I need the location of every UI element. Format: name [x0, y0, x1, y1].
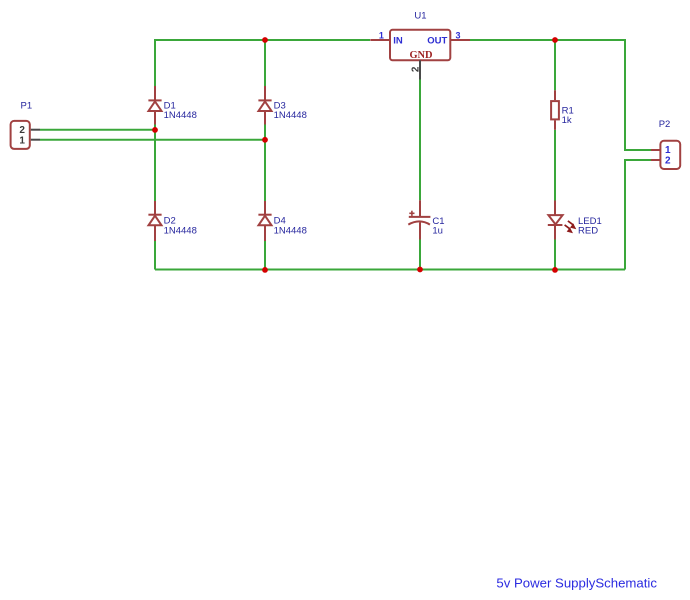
- wire LED1 to bottom bus: [554, 240, 556, 270]
- diode D1: [148, 86, 161, 125]
- regulator U1: [370, 30, 470, 80]
- svg-text:RED: RED: [578, 225, 598, 236]
- LED LED1: [548, 201, 563, 240]
- resistor R1: [551, 90, 559, 130]
- wire R1 to LED1: [554, 130, 556, 201]
- wire top bus to R1: [554, 40, 556, 90]
- svg-text:1k: 1k: [562, 115, 572, 126]
- wire D3 top: [264, 40, 266, 86]
- wire top bus right: [470, 40, 651, 150]
- wire D3 to D4: [264, 125, 266, 202]
- diode D2: [148, 201, 161, 241]
- svg-text:1N4448: 1N4448: [274, 226, 307, 237]
- wire C1 to bottom bus: [419, 240, 421, 270]
- capacitor C1: [408, 200, 430, 239]
- wire P1 pin1 to node B: [40, 139, 265, 141]
- wire P2 pin2 riser: [625, 160, 651, 270]
- node C junction P1pin2-D1D2: [152, 127, 158, 133]
- wire D4 to bottom bus: [264, 241, 266, 270]
- svg-text:3: 3: [456, 31, 461, 41]
- wire P1 pin2 to node A: [40, 129, 155, 131]
- svg-text:OUT: OUT: [427, 36, 447, 47]
- svg-text:1: 1: [379, 31, 384, 41]
- node G junction bottom-LED1: [552, 267, 558, 273]
- svg-text:1N4448: 1N4448: [164, 226, 197, 237]
- node B junction top-R1: [552, 37, 558, 43]
- svg-text:U1: U1: [414, 10, 426, 21]
- node A junction top-D3: [262, 37, 268, 43]
- svg-text:1N4448: 1N4448: [164, 110, 197, 121]
- svg-text:1N4448: 1N4448: [274, 110, 307, 121]
- svg-text:IN: IN: [393, 35, 403, 46]
- node F junction bottom-C1: [417, 267, 423, 273]
- svg-text:P2: P2: [659, 119, 671, 130]
- svg-text:5v Power SupplySchematic: 5v Power SupplySchematic: [496, 575, 657, 590]
- svg-text:P1: P1: [21, 100, 33, 111]
- diode D4: [258, 201, 271, 241]
- wire D1 to D2: [154, 125, 156, 202]
- connector P1: [11, 121, 40, 149]
- svg-text:2: 2: [411, 66, 422, 72]
- node E junction bottom-D4: [262, 267, 268, 273]
- wire U1 gnd to C1: [419, 80, 421, 201]
- diode D3: [258, 86, 271, 125]
- svg-text:2: 2: [665, 156, 671, 167]
- svg-text:GND: GND: [409, 50, 432, 61]
- svg-text:1: 1: [665, 145, 671, 156]
- node D junction P1pin1-D3D4: [262, 137, 268, 143]
- wire bottom bus: [155, 269, 625, 271]
- LED LED1 emission arrow 2: [565, 225, 573, 233]
- LED LED1 emission arrow 1: [568, 221, 576, 229]
- wire top bus left: [155, 40, 370, 86]
- svg-text:1: 1: [19, 135, 25, 146]
- svg-text:1u: 1u: [432, 225, 443, 236]
- wire D2 to bottom bus: [154, 241, 156, 270]
- connector P2: [651, 141, 680, 169]
